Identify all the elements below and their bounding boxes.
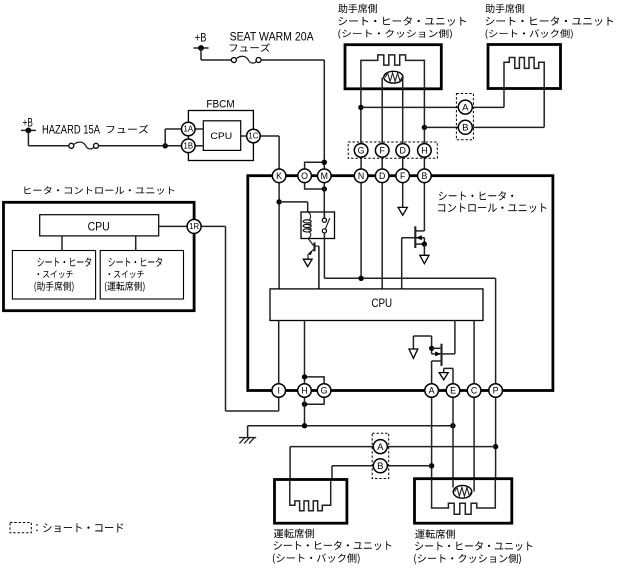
svg-text:N: N	[358, 171, 364, 181]
svg-text:A: A	[377, 442, 384, 453]
svg-text:H: H	[301, 386, 307, 396]
svg-text:D: D	[400, 146, 406, 156]
svg-text:+B: +B	[195, 32, 207, 45]
svg-text:SEAT WARM 20A: SEAT WARM 20A	[230, 31, 314, 44]
svg-text:+B: +B	[23, 117, 33, 130]
svg-text:1R: 1R	[189, 222, 199, 231]
svg-text:CPU: CPU	[88, 221, 110, 234]
svg-text:A: A	[462, 103, 469, 114]
svg-text:HAZARD 15A: HAZARD 15A	[42, 123, 101, 136]
svg-text:B: B	[462, 123, 468, 134]
svg-text:F: F	[380, 146, 386, 156]
svg-text:C: C	[471, 386, 478, 396]
svg-text:P: P	[493, 386, 499, 396]
svg-text:1C: 1C	[248, 132, 258, 141]
svg-text:FBCM: FBCM	[206, 99, 234, 110]
svg-text:K: K	[276, 171, 282, 181]
svg-text:D: D	[379, 171, 385, 181]
svg-text:F: F	[400, 171, 406, 181]
svg-text:A: A	[429, 386, 435, 396]
svg-text:G: G	[358, 146, 365, 156]
svg-text:I: I	[277, 386, 279, 396]
svg-text:CPU: CPU	[371, 297, 392, 310]
svg-text:E: E	[450, 386, 456, 396]
svg-text:B: B	[377, 461, 383, 472]
svg-text:H: H	[421, 146, 427, 156]
svg-text:1B: 1B	[184, 142, 194, 151]
svg-text:G: G	[321, 386, 328, 396]
svg-text:1A: 1A	[184, 125, 194, 134]
svg-text:B: B	[421, 171, 427, 181]
svg-text:CPU: CPU	[210, 131, 232, 142]
svg-text:M: M	[321, 171, 328, 181]
svg-text:O: O	[301, 171, 308, 181]
